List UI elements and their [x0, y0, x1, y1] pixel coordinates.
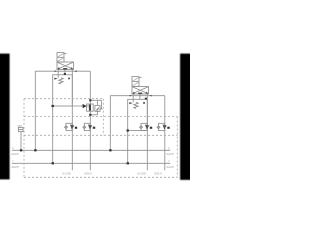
- svg-text:B 03B: B 03B: [138, 172, 146, 176]
- svg-text:0A2P: 0A2P: [12, 165, 19, 169]
- svg-text:P: P: [12, 146, 14, 150]
- svg-text:T: T: [12, 159, 14, 163]
- svg-text:0A2P: 0A2P: [167, 152, 174, 156]
- svg-text:03B A: 03B A: [154, 172, 162, 176]
- svg-text:0A2P: 0A2P: [167, 165, 174, 169]
- svg-text:MP: MP: [18, 124, 23, 128]
- svg-text:P: P: [168, 146, 170, 150]
- svg-text:0A2P: 0A2P: [12, 152, 19, 156]
- svg-text:T: T: [168, 159, 170, 163]
- svg-text:03B A: 03B A: [84, 172, 92, 176]
- svg-text:B 03B: B 03B: [63, 172, 71, 176]
